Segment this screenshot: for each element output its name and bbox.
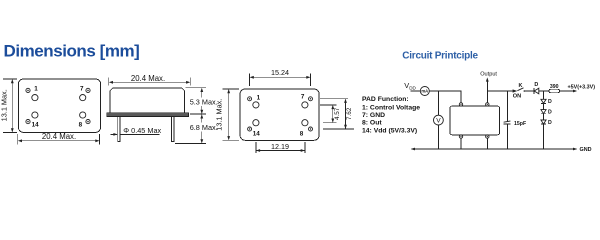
mount hole top-left view3	[253, 102, 259, 108]
pad pin8 view1	[86, 120, 90, 124]
svg-text:Φ 0.45 Max: Φ 0.45 Max	[123, 126, 161, 135]
wire D3 to ground	[543, 124, 545, 149]
Output arrow and wire	[486, 77, 489, 102]
svg-text:13.1 Max.: 13.1 Max.	[0, 89, 9, 121]
svg-text:15.24: 15.24	[271, 68, 289, 77]
wire switch to diode D	[525, 90, 534, 92]
pin top-left U1	[459, 103, 462, 106]
svg-text:GND: GND	[580, 147, 592, 153]
svg-text:8: 8	[79, 121, 83, 128]
capacitor 15pF	[504, 121, 511, 124]
svg-text:D: D	[548, 109, 552, 115]
resistor 390	[549, 89, 559, 93]
wire ammeter to pin1 corner	[429, 91, 461, 103]
wire capacitor to ground	[506, 124, 508, 149]
wire voltmeter branch top	[437, 91, 439, 115]
left lead side view	[118, 117, 120, 142]
dimension 7.62 row pitch	[323, 99, 354, 129]
svg-text:390: 390	[550, 84, 559, 90]
svg-text:13.1 Max.: 13.1 Max.	[214, 99, 223, 131]
wire pin bottom-left to ground	[460, 138, 462, 149]
wire voltmeter to ground	[437, 125, 439, 149]
dimension 12.19 hole pitch	[256, 142, 305, 153]
svg-text:Circuit Printciple: Circuit Printciple	[402, 51, 478, 62]
right lead side view	[172, 117, 174, 142]
pad pin8 view3	[309, 127, 313, 131]
pin bottom-right U1	[486, 135, 489, 138]
svg-text:7.62: 7.62	[346, 107, 353, 120]
wire output rail	[487, 90, 516, 92]
wire junction to diode chain	[543, 91, 545, 99]
svg-text:20.4 Max.: 20.4 Max.	[42, 132, 76, 141]
pad pin1 view1	[26, 88, 30, 92]
mount hole bottom-left view3	[253, 120, 259, 126]
pad pin7 view1	[86, 88, 90, 92]
dimension 4.57 row pitch	[320, 99, 348, 123]
ammeter mA	[420, 87, 429, 96]
diode D horizontal	[534, 88, 539, 94]
svg-text:+5V(+3.3V): +5V(+3.3V)	[568, 84, 596, 90]
ground rail	[411, 148, 577, 151]
DUT oscillator box U1	[450, 106, 500, 135]
svg-text:VDD: VDD	[404, 81, 416, 90]
lead diameter 0.45 callout	[111, 126, 162, 136]
svg-text:Dimensions [mm]: Dimensions [mm]	[4, 42, 140, 61]
svg-text:D: D	[534, 82, 538, 88]
pin bottom-left U1	[459, 135, 462, 138]
dimension 13.1 Max height view1	[0, 79, 17, 132]
wire diode to resistor	[539, 90, 549, 92]
svg-text:1: Control Voltage: 1: Control Voltage	[362, 104, 420, 111]
dimension 5.3 Max body height	[186, 88, 218, 114]
wire resistor to +5V	[559, 90, 577, 93]
svg-text:8: 8	[300, 130, 304, 137]
diode D1 vertical	[541, 99, 546, 103]
svg-text:Output: Output	[480, 72, 497, 78]
svg-text:4.57: 4.57	[334, 107, 341, 120]
diode D3 vertical	[541, 120, 546, 124]
wire VDD to ammeter	[411, 90, 421, 92]
svg-text:K: K	[519, 83, 523, 89]
pad pin14 view3	[248, 127, 252, 131]
svg-text:V: V	[436, 118, 441, 125]
dimension 15.24 pin pitch	[250, 68, 311, 86]
pin top-right U1	[486, 103, 489, 106]
wire D2 to D3	[543, 114, 545, 120]
dimension 13.1 Max height view3	[214, 89, 239, 140]
dimension 20.4 Max width view1	[18, 132, 100, 145]
mount hole top-right view1	[80, 95, 86, 101]
svg-text:mA: mA	[421, 89, 428, 94]
svg-text:1: 1	[34, 85, 38, 92]
mount hole bottom-right view1	[80, 112, 86, 118]
svg-text:D: D	[548, 99, 552, 105]
voltmeter V	[434, 115, 444, 125]
oscillator body side view	[110, 88, 185, 113]
pad pin1 view3	[248, 97, 252, 101]
svg-text:15pF: 15pF	[514, 121, 526, 127]
diode D2 vertical	[541, 110, 546, 114]
package outline view1	[18, 79, 100, 132]
svg-text:14: 14	[32, 121, 40, 128]
svg-text:D: D	[548, 120, 552, 126]
base plate side view	[107, 113, 189, 117]
svg-text:7: GND: 7: GND	[362, 112, 385, 119]
svg-text:12.19: 12.19	[271, 142, 289, 151]
dimension 20.4 Max width view2	[109, 74, 191, 86]
mount hole bottom-right view3	[302, 120, 308, 126]
svg-text:14: Vdd (5V/3.3V): 14: Vdd (5V/3.3V)	[362, 127, 417, 134]
package outline view3	[240, 89, 319, 140]
svg-text:7: 7	[80, 85, 84, 92]
mount hole bottom-left view1	[32, 112, 38, 118]
svg-text:ON: ON	[513, 94, 521, 100]
mount hole top-right view3	[302, 102, 308, 108]
svg-text:14: 14	[253, 130, 261, 137]
svg-text:1: 1	[257, 94, 261, 101]
pad pin14 view1	[26, 120, 30, 124]
wire capacitor branch	[506, 91, 508, 121]
svg-text:7: 7	[301, 94, 305, 101]
svg-text:PAD Function:: PAD Function:	[362, 96, 409, 103]
pad pin7 view3	[309, 97, 313, 101]
svg-text:8: Out: 8: Out	[362, 120, 382, 127]
wire D1 to D2	[543, 103, 545, 109]
mount hole top-left view1	[32, 95, 38, 101]
wire pin bottom-right to ground	[486, 138, 488, 149]
switch K	[513, 88, 526, 93]
PAD function note	[362, 96, 420, 134]
dimension 6.8 Max lead length	[175, 114, 218, 143]
svg-text:20.4 Max.: 20.4 Max.	[131, 74, 165, 83]
